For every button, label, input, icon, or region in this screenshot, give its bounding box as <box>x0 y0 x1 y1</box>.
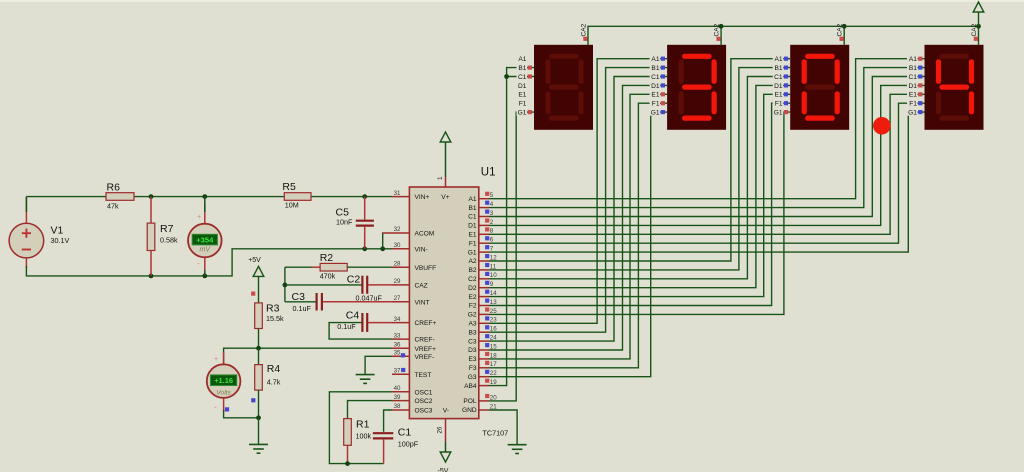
svg-text:B2: B2 <box>469 267 477 274</box>
wire U1 D3 to DS2 D segment <box>489 85 667 350</box>
U1 pin 37 logic square <box>401 368 405 372</box>
svg-text:GND: GND <box>462 407 477 414</box>
svg-text:9: 9 <box>490 281 494 288</box>
svg-text:E1: E1 <box>775 92 783 99</box>
U1 right pin 8 E1 <box>479 233 489 235</box>
display DS2 pin label A1 <box>650 54 661 62</box>
svg-text:OSC2: OSC2 <box>415 398 433 405</box>
wire CA2 stub display DS3 <box>843 26 845 45</box>
svg-text:A2: A2 <box>469 258 477 265</box>
wire U1 F1 to DS4 F segment <box>489 103 925 243</box>
display DS3 segment A lit <box>808 54 833 59</box>
resistor R2 <box>320 263 347 271</box>
display DS4 segment A unlit <box>942 54 967 59</box>
display DS3 segment G unlit <box>808 84 833 89</box>
svg-text:39: 39 <box>394 394 401 401</box>
svg-text:38: 38 <box>394 403 401 410</box>
display DS4 pin D1 logic square <box>918 83 922 87</box>
wire U1 F3 to DS2 F segment <box>489 103 667 368</box>
display DS3 segment F lit <box>802 62 807 82</box>
display DS3 pin label F1 <box>773 99 784 107</box>
display DS4 pin B1 logic square <box>918 66 922 70</box>
svg-text:G1: G1 <box>774 110 783 117</box>
display DS4 pin F1 logic square <box>918 101 922 105</box>
svg-text:26: 26 <box>437 426 444 433</box>
svg-text:F1: F1 <box>775 101 783 108</box>
svg-text:14: 14 <box>490 290 497 297</box>
wire OSC1 loop <box>329 392 392 464</box>
wire U1 E2 to DS3 E segment <box>489 94 790 296</box>
display DS3 segment D lit <box>808 115 833 120</box>
U1 left pin 38 OSC3 <box>392 409 409 411</box>
voltmeter mV lcd display +354 <box>192 234 217 245</box>
junction ACOM joins VIN- <box>380 246 385 251</box>
svg-text:C1: C1 <box>774 74 783 81</box>
display DS4 pin G1 logic square <box>918 110 922 114</box>
wire U1 D2 to DS3 D segment <box>489 85 790 287</box>
U1 left pin 39 OSC2 <box>392 400 409 402</box>
display DS3 pin A1 logic square <box>784 57 788 61</box>
svg-text:VINT: VINT <box>415 299 430 306</box>
svg-text:B1: B1 <box>775 65 783 72</box>
svg-text:10nF: 10nF <box>336 217 353 226</box>
junction mV meter top <box>202 194 207 199</box>
display DS2 pin E1 logic square <box>661 92 665 96</box>
capacitor C4 <box>361 313 363 332</box>
svg-text:+354: +354 <box>196 236 214 245</box>
wire POL to DS1 G1 <box>489 112 534 401</box>
svg-text:100pF: 100pF <box>398 439 419 448</box>
wire U1 A1 to DS4 A segment <box>489 59 925 199</box>
svg-text:CA2: CA2 <box>837 23 844 36</box>
svg-text:D1: D1 <box>774 83 783 90</box>
wire R1 bottom <box>347 445 349 463</box>
svg-text:A1: A1 <box>909 56 917 63</box>
svg-text:18: 18 <box>490 352 497 359</box>
svg-text:VREF+: VREF+ <box>415 346 437 353</box>
display DS2 segment E unlit <box>678 94 683 112</box>
display DS2 segment D lit <box>685 115 710 120</box>
svg-text:35: 35 <box>394 350 401 357</box>
wire U1 E1 to DS4 E segment <box>489 94 925 234</box>
svg-text:8: 8 <box>490 228 494 235</box>
svg-text:G3: G3 <box>468 374 477 381</box>
svg-text:A3: A3 <box>469 321 477 328</box>
svg-text:F1: F1 <box>519 101 527 108</box>
junction on CA2 rail at DS2 <box>719 24 724 29</box>
wire U1 C2 to DS3 C segment <box>489 77 790 279</box>
U1 right pin 12 A2 <box>479 260 489 262</box>
power +5V arrow top right <box>978 11 980 26</box>
U1 right pin 11 B2 <box>479 269 489 271</box>
wire bottom rail to VIN- <box>26 249 392 276</box>
voltmeter mV body <box>188 224 222 258</box>
svg-text:VIN+: VIN+ <box>415 194 430 201</box>
junction CAZ node <box>283 283 288 288</box>
svg-text:0.1uF: 0.1uF <box>337 322 356 331</box>
wire U1 B2 to DS3 B segment <box>489 68 790 270</box>
display DS3 pin C1 logic square <box>784 74 788 78</box>
resistor R6 <box>106 193 134 201</box>
svg-text:C1: C1 <box>908 74 917 81</box>
display DS4 pin label C1 <box>907 72 918 80</box>
display DS1 pin label B1 <box>517 63 528 71</box>
U1 left pin 34 CREF+ <box>392 322 409 324</box>
svg-text:B3: B3 <box>469 329 477 336</box>
capacitor C2 <box>361 276 363 294</box>
svg-text:F1: F1 <box>469 240 477 247</box>
svg-text:VBUFF: VBUFF <box>415 265 437 272</box>
resistor R4 <box>255 365 263 391</box>
svg-text:10M: 10M <box>285 200 299 209</box>
svg-text:R6: R6 <box>107 182 121 194</box>
U1 right pin 2 D1 <box>479 224 489 226</box>
svg-text:34: 34 <box>394 316 401 323</box>
svg-text:-: - <box>197 259 200 268</box>
svg-text:3: 3 <box>490 210 494 217</box>
svg-text:36: 36 <box>394 341 401 348</box>
svg-text:11: 11 <box>490 263 497 270</box>
svg-text:6: 6 <box>490 237 494 244</box>
voltmeter Volts lcd display +1.16 <box>211 375 237 386</box>
U1 left pin 28 VBUFF <box>392 266 409 268</box>
U1 left pin 35 VREF- <box>392 355 409 357</box>
display DS1 segment C unlit <box>578 94 583 112</box>
svg-text:CA2: CA2 <box>971 23 978 36</box>
svg-text:OSC3: OSC3 <box>415 408 433 415</box>
ground symbol at VREF- <box>356 374 375 376</box>
resistor R1 <box>344 419 352 446</box>
wire VREF- to ground <box>365 356 392 374</box>
svg-text:A1: A1 <box>651 56 659 63</box>
svg-text:32: 32 <box>394 226 401 233</box>
svg-text:E2: E2 <box>469 294 477 301</box>
display DS3 pin D1 logic square <box>784 83 788 87</box>
display DS1 pin label G1 <box>517 108 528 116</box>
U1 right pin 13 F2 <box>479 305 489 307</box>
svg-text:22: 22 <box>490 370 497 377</box>
svg-text:V-: V- <box>443 408 449 415</box>
U1 right pin 4 B1 <box>479 207 489 209</box>
resistor R7 with leads <box>150 197 152 224</box>
wire GND pin to ground <box>489 410 517 445</box>
junction R1 bottom rail <box>345 461 350 466</box>
svg-text:D1: D1 <box>651 83 660 90</box>
display DS4 CA2 logic square <box>974 37 978 41</box>
display DS3 segment C lit <box>835 94 840 112</box>
display DS4 segment C lit <box>969 94 974 112</box>
wire V1 bottom lead <box>25 258 27 268</box>
U1 right pin 24 C3 <box>479 340 489 342</box>
wire U1 A2 to DS3 A segment <box>489 59 790 261</box>
wire U1 G1 to DS4 G segment <box>489 112 925 252</box>
svg-text:100k: 100k <box>356 432 372 441</box>
U1 right pin 20 POL <box>479 400 489 402</box>
display DS3 segment E lit <box>802 94 807 112</box>
svg-text:D1: D1 <box>908 83 917 90</box>
display DS1 segment B unlit <box>578 62 583 82</box>
U1 left pin 27 VINT <box>392 301 409 303</box>
display DS1 segment A unlit <box>552 54 577 59</box>
display DS1 pin label E1 <box>517 90 528 98</box>
display DS3 pin label C1 <box>773 72 784 80</box>
display DS4 segment B lit <box>969 62 974 82</box>
svg-text:4: 4 <box>490 201 494 208</box>
svg-text:CA2: CA2 <box>714 23 721 36</box>
svg-text:B1: B1 <box>469 205 477 212</box>
display DS1 pin label A1 <box>517 54 528 62</box>
ground symbol below R4 <box>249 443 268 445</box>
svg-text:R1: R1 <box>356 419 370 431</box>
svg-text:D1: D1 <box>468 223 477 230</box>
display DS3 pin E1 logic square <box>784 92 788 96</box>
display DS2 pin label D1 <box>650 81 661 89</box>
svg-text:E1: E1 <box>651 92 659 99</box>
display DS2 pin F1 logic square <box>661 101 665 105</box>
display DS4 segment D unlit <box>942 115 967 120</box>
U1 right pin 21 GND <box>479 409 489 411</box>
junction AB4/C1 <box>504 74 509 79</box>
wire U1 A3 to DS2 A segment <box>489 59 667 324</box>
svg-text:C1: C1 <box>518 74 527 81</box>
U1 right pin 18 E3 <box>479 358 489 360</box>
display DS4 segment E unlit <box>936 94 941 112</box>
svg-text:31: 31 <box>394 190 401 197</box>
display DS1 CA2 logic square <box>583 37 587 41</box>
svg-text:0.58k: 0.58k <box>160 236 178 245</box>
svg-text:29: 29 <box>394 278 401 285</box>
display DS3 pin G1 logic square <box>784 110 788 114</box>
svg-text:TC7107: TC7107 <box>483 429 509 438</box>
U1 right pin 9 D2 <box>479 287 489 289</box>
svg-text:15.5k: 15.5k <box>266 314 284 323</box>
voltage source V1 <box>9 223 44 258</box>
wire VREF+ row <box>224 348 392 364</box>
U1 left pin 30 VIN- <box>392 248 409 250</box>
svg-text:V+: V+ <box>441 194 449 201</box>
display DS2 pin label B1 <box>650 63 661 71</box>
svg-text:+: + <box>197 214 201 221</box>
svg-text:+5V: +5V <box>248 257 261 264</box>
display DS2 segment A lit <box>685 54 710 59</box>
svg-text:5: 5 <box>490 192 494 199</box>
wire VIN+ rail <box>26 196 392 198</box>
R4 bottom logic square <box>251 398 255 402</box>
svg-text:C3: C3 <box>292 291 306 303</box>
display DS3 pin label G1 <box>773 108 784 116</box>
wire Volts meter minus to ground rail <box>224 410 259 418</box>
svg-text:R4: R4 <box>267 363 281 375</box>
wire VINT row left <box>285 301 316 303</box>
svg-text:C3: C3 <box>468 338 477 345</box>
red current-probe dot <box>873 117 891 135</box>
wire CAZ row <box>285 284 362 286</box>
svg-text:CA2: CA2 <box>581 23 588 36</box>
display DS2 pin label G1 <box>650 108 661 116</box>
svg-text:7: 7 <box>490 246 494 253</box>
wire U1 D1 to DS4 D segment <box>489 85 925 225</box>
svg-text:R3: R3 <box>266 303 280 315</box>
svg-text:B1: B1 <box>518 65 526 72</box>
wire AB4 branch to DS1 C1 <box>507 76 534 78</box>
svg-text:A1: A1 <box>518 56 526 63</box>
power -5V arrow below U1 <box>440 452 451 462</box>
wire CA2 +5V rail <box>588 26 979 45</box>
display DS4 pin label B1 <box>907 63 918 71</box>
svg-text:B1: B1 <box>651 65 659 72</box>
display DS4 pin E1 logic square <box>918 92 922 96</box>
display DS4 pin label E1 <box>907 90 918 98</box>
display DS4 pin A1 logic square <box>918 57 922 61</box>
capacitor C1 <box>373 432 393 434</box>
svg-text:470k: 470k <box>320 272 336 281</box>
svg-text:VREF-: VREF- <box>415 354 435 361</box>
capacitor C3 <box>316 293 318 311</box>
svg-text:E1: E1 <box>909 92 917 99</box>
junction R7 bottom <box>149 274 154 279</box>
display DS2 segment C lit <box>711 94 716 112</box>
display DS1 segment E unlit <box>545 94 550 112</box>
display DS3 pin label D1 <box>773 81 784 89</box>
display DS1 pin label C1 <box>517 72 528 80</box>
wire OSC3 to C1 <box>384 410 392 432</box>
svg-text:F1: F1 <box>652 101 660 108</box>
display DS4 pin C1 logic square <box>918 74 922 78</box>
U1 left pin 37 TEST <box>392 373 409 375</box>
display DS2 pin B1 logic square <box>661 66 665 70</box>
svg-text:+: + <box>214 356 218 363</box>
wire ACOM vertical <box>382 232 392 234</box>
svg-text:47k: 47k <box>107 201 119 210</box>
display DS2 pin A1 logic square <box>661 57 665 61</box>
display DS1 pin label D1 <box>517 81 528 89</box>
display DS2 segment G lit <box>685 84 710 89</box>
junction R7 top <box>149 194 154 199</box>
wire U1 E3 to DS2 E segment <box>489 94 667 359</box>
U1 right pin 22 G3 <box>479 376 489 378</box>
wire U1 G2 to DS3 G segment <box>489 112 790 314</box>
U1 right pin 7 G1 <box>479 251 489 253</box>
svg-text:F3: F3 <box>469 365 477 372</box>
svg-text:21: 21 <box>490 403 497 410</box>
junction C5 top <box>362 194 367 199</box>
svg-text:2: 2 <box>490 219 494 226</box>
svg-text:0.1uF: 0.1uF <box>293 304 312 313</box>
U1 right pin 14 E2 <box>479 296 489 298</box>
display DS1 segment F unlit <box>545 62 550 82</box>
svg-text:D2: D2 <box>468 285 477 292</box>
wire U1 F2 to DS3 F segment <box>489 103 790 305</box>
svg-text:23: 23 <box>490 317 497 324</box>
junction on CA2 rail at DS3 <box>842 24 847 29</box>
U1 pin 35 logic square <box>401 353 405 357</box>
svg-text:12: 12 <box>490 254 497 261</box>
junction mV meter bottom <box>202 274 207 279</box>
wire AB4 to DS1 B1/C1 <box>489 68 534 386</box>
svg-text:CREF-: CREF- <box>415 337 435 344</box>
junction C5 bottom <box>362 246 367 251</box>
svg-text:16: 16 <box>490 326 497 333</box>
svg-text:D1: D1 <box>518 83 527 90</box>
svg-text:CAZ: CAZ <box>415 283 428 290</box>
resistor R3 <box>255 303 263 329</box>
wire R4 to ground rail <box>258 390 260 418</box>
svg-text:Volts: Volts <box>216 390 231 397</box>
display DS2 pin label F1 <box>650 99 661 107</box>
display DS2 pin label E1 <box>650 90 661 98</box>
7-segment display DS4 body <box>925 45 984 130</box>
U1 left pin 40 OSC1 <box>392 391 409 393</box>
svg-text:19: 19 <box>490 379 497 386</box>
svg-text:AB4: AB4 <box>464 383 477 390</box>
svg-text:mV: mV <box>200 247 212 254</box>
display DS2 segment F unlit <box>678 62 683 82</box>
capacitor C5 <box>364 197 366 221</box>
U1 right pin 25 G2 <box>479 313 489 315</box>
U1 right pin 19 AB4 <box>479 385 489 387</box>
junction R3/R4/VREF+ <box>256 346 261 351</box>
U1 right pin 5 A1 <box>479 198 489 200</box>
svg-text:G1: G1 <box>518 110 527 117</box>
power +5V arrow above U1 <box>440 132 451 142</box>
display DS1 pin C1 logic square <box>528 74 532 78</box>
svg-text:G2: G2 <box>468 312 477 319</box>
display DS4 pin label F1 <box>907 99 918 107</box>
wire R2 left lead down to CAZ node <box>285 266 312 268</box>
svg-text:A1: A1 <box>469 196 477 203</box>
display DS3 pin B1 logic square <box>784 66 788 70</box>
svg-text:G1: G1 <box>908 110 917 117</box>
svg-text:ACOM: ACOM <box>415 231 435 238</box>
display DS3 pin label B1 <box>773 63 784 71</box>
display DS3 pin label A1 <box>773 54 784 62</box>
U1 right pin 6 F1 <box>479 242 489 244</box>
U1 right pin 16 B3 <box>479 331 489 333</box>
svg-text:VIN-: VIN- <box>415 246 428 253</box>
voltmeter Volts body <box>207 364 241 398</box>
U1 left pin 31 VIN+ <box>392 196 409 198</box>
svg-text:F2: F2 <box>469 303 477 310</box>
svg-text:C1: C1 <box>468 214 477 221</box>
U1 right pin 17 F3 <box>479 367 489 369</box>
U1 right pin 15 D3 <box>479 349 489 351</box>
wire U1 B3 to DS2 B segment <box>489 68 667 333</box>
svg-text:C1: C1 <box>398 426 412 438</box>
svg-text:24: 24 <box>490 335 497 342</box>
wire R3 to VREF+ node <box>258 329 260 349</box>
svg-text:10: 10 <box>490 272 497 279</box>
svg-text:F1: F1 <box>909 101 917 108</box>
svg-text:G1: G1 <box>468 249 477 256</box>
wire U1 C3 to DS2 C segment <box>489 77 667 342</box>
svg-text:+1.16: +1.16 <box>214 376 233 385</box>
svg-text:E3: E3 <box>469 356 477 363</box>
ground symbol at U1 GND <box>508 444 527 446</box>
R3 top logic square <box>251 292 255 296</box>
svg-text:G1: G1 <box>651 110 660 117</box>
svg-text:25: 25 <box>490 308 497 315</box>
U1 right pin 23 A3 <box>479 322 489 324</box>
display DS2 CA2 logic square <box>716 37 720 41</box>
display DS3 pin F1 logic square <box>784 101 788 105</box>
svg-text:37: 37 <box>394 367 401 374</box>
U1 V- pin 26 wire to -5V arrow <box>445 419 447 442</box>
svg-text:C2: C2 <box>347 274 361 286</box>
svg-text:C1: C1 <box>651 74 660 81</box>
display DS3 segment B lit <box>835 62 840 82</box>
svg-text:E1: E1 <box>469 232 477 239</box>
svg-text:R5: R5 <box>282 181 296 193</box>
